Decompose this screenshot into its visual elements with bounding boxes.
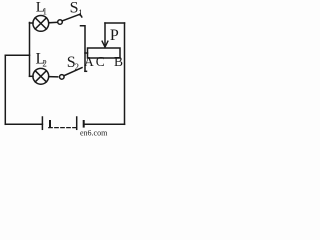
battery cell 1 long plate bbox=[41, 117, 43, 129]
wire: left rail bbox=[4, 55, 6, 124]
svg-text:1: 1 bbox=[78, 8, 83, 18]
wire: L2 left tick bbox=[30, 75, 34, 77]
svg-text:B: B bbox=[114, 54, 123, 69]
lamp L1 bbox=[33, 16, 49, 32]
svg-text:en6.com: en6.com bbox=[80, 129, 108, 138]
svg-text:P: P bbox=[110, 27, 119, 44]
switch S1 blade bbox=[62, 14, 80, 21]
svg-text:2: 2 bbox=[75, 62, 80, 72]
wire: left branch vertical bbox=[29, 23, 31, 77]
switch S2 blade bbox=[64, 68, 82, 76]
wire: junction horizontal to left rail bbox=[5, 54, 29, 56]
wire: tick to rheostat left terminal A bbox=[85, 52, 88, 54]
wire: L1 to S1 bbox=[49, 21, 58, 24]
switch S2 pivot bbox=[60, 75, 65, 80]
switch S2 fixed contact tick bbox=[85, 70, 87, 72]
svg-text:2: 2 bbox=[42, 59, 47, 69]
lamp L2 bbox=[33, 68, 49, 84]
battery dashed continuation bbox=[49, 127, 77, 129]
wire: right rail bbox=[124, 23, 126, 124]
svg-text:S: S bbox=[70, 0, 79, 17]
svg-text:1: 1 bbox=[43, 7, 48, 17]
wire: bottom right from battery bbox=[84, 123, 125, 125]
switch S1 blade tip hook bbox=[80, 14, 82, 17]
wire: bottom left to battery bbox=[5, 123, 42, 125]
rheostat P body bbox=[88, 48, 121, 58]
wire: S1 fixed contact to vertical bbox=[81, 26, 86, 72]
battery cell 2 long plate bbox=[76, 117, 78, 129]
wire: wiper top to right rail bbox=[105, 22, 125, 24]
switch S1 pivot bbox=[58, 20, 63, 25]
wire: L2 to S2 bbox=[49, 76, 58, 78]
battery cell 2 short plate bbox=[83, 121, 85, 127]
rheostat wiper arrowhead bbox=[102, 41, 108, 48]
svg-text:A: A bbox=[84, 54, 94, 69]
battery cell 1 short plate bbox=[49, 121, 51, 127]
wire: L1 left tick bbox=[30, 22, 34, 24]
svg-text:C: C bbox=[96, 54, 105, 69]
rheostat wiper arrow shaft bbox=[104, 23, 106, 46]
